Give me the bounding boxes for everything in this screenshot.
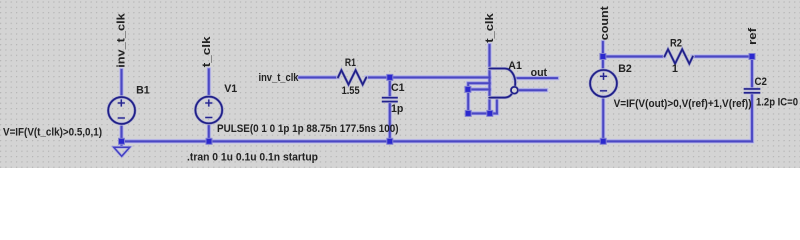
junction B1 ground rail: [119, 138, 125, 144]
symbol halo pass: [108, 49, 693, 124]
svg-text:1.2p IC=0: 1.2p IC=0: [756, 96, 798, 108]
source polarity marks: [118, 73, 607, 118]
junction ref node: [749, 54, 755, 60]
svg-text:out: out: [531, 67, 548, 79]
B1 plus: [118, 102, 125, 104]
symbol mid pass: [108, 49, 693, 124]
junction C1 top node: [387, 74, 393, 80]
junction C1 rail: [387, 138, 393, 144]
B1 minus: [118, 117, 125, 119]
ground symbol: [114, 147, 130, 156]
svg-text:B2: B2: [618, 63, 632, 75]
svg-text:PULSE(0 1 0 1p 1p 88.75n 177.5: PULSE(0 1 0 1p 1p 88.75n 177.5ns 100): [217, 123, 399, 135]
svg-text:1: 1: [672, 63, 678, 75]
svg-text:t_clk: t_clk: [484, 12, 496, 43]
svg-text:R2: R2: [670, 37, 682, 49]
svg-text:1p: 1p: [391, 103, 404, 115]
junction below gate left: [465, 110, 471, 116]
symbol core pass: [108, 49, 693, 124]
svg-text:V=IF(V(t_clk)>0.5,0,1): V=IF(V(t_clk)>0.5,0,1): [3, 126, 102, 138]
B2 plus: [600, 75, 607, 77]
svg-text:.tran 0 1u 0.1u 0.1n startup: .tran 0 1u 0.1u 0.1n startup: [187, 152, 319, 164]
V1 minus: [205, 117, 212, 119]
svg-text:A1: A1: [508, 60, 522, 72]
junction gate input 3: [465, 86, 471, 92]
capacitor plates: [382, 89, 761, 102]
junction below gate right: [487, 110, 493, 116]
svg-text:R1: R1: [345, 57, 356, 69]
svg-text:inv_t_clk: inv_t_clk: [115, 12, 127, 68]
svg-text:B1: B1: [136, 85, 150, 97]
svg-text:t_clk: t_clk: [201, 35, 213, 67]
svg-text:ref: ref: [747, 27, 759, 44]
junction B2 rail: [600, 138, 606, 144]
svg-text:C1: C1: [391, 82, 405, 94]
wire mid pass: [122, 42, 753, 147]
V1 plus: [205, 102, 212, 104]
nand gate A1 output bubble: [511, 87, 518, 94]
capacitor C2 plates: [744, 88, 761, 90]
B2 minus: [600, 90, 607, 92]
capacitor C1 plates: [382, 97, 398, 99]
svg-text:C2: C2: [755, 76, 767, 88]
svg-text:V1: V1: [224, 83, 237, 95]
svg-text:1.55: 1.55: [342, 85, 360, 97]
svg-text:V=IF(V(out)>0,V(ref)+1,V(ref)): V=IF(V(out)>0,V(ref)+1,V(ref)): [614, 98, 752, 110]
svg-text:count: count: [599, 6, 611, 40]
junction V1 rail: [206, 138, 212, 144]
svg-text:inv_t_clk: inv_t_clk: [259, 72, 299, 84]
wire core pass: [122, 42, 753, 147]
wire halo pass: [122, 42, 753, 147]
junction count node: [600, 54, 606, 60]
